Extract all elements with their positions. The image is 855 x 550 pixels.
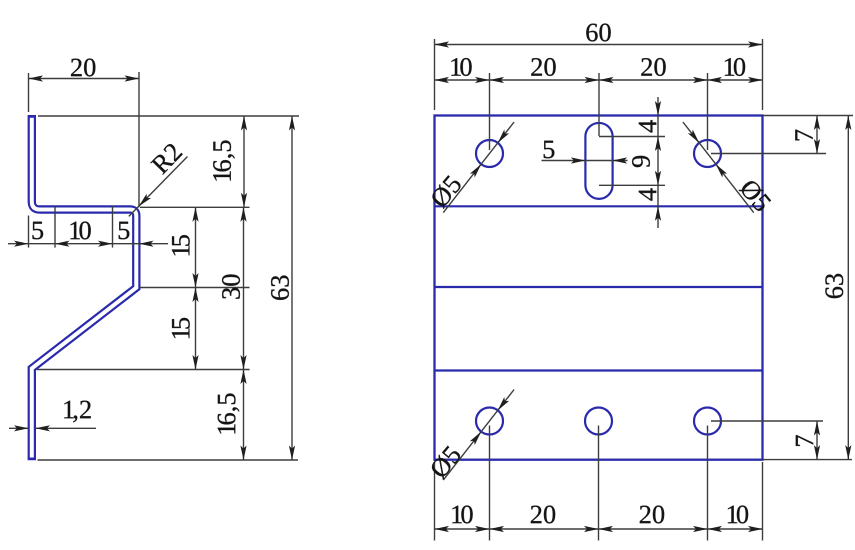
dimension 30 xyxy=(222,207,247,369)
dimension chain 5 / 10 / 5 xyxy=(8,222,168,247)
dimension column 4 / 9 / 4 (slot position) xyxy=(632,97,661,228)
dimension 16,5 (top) xyxy=(213,116,247,207)
extension tick at x=15 (dim 5/10/5) xyxy=(112,206,114,248)
leader Ø5 (top-left hole) xyxy=(429,122,514,213)
extension line: bottom edge horizontal xyxy=(38,459,299,461)
extension tick at x=5 (dim 5/10/5) xyxy=(54,206,56,248)
slot 5x9 (obround) xyxy=(585,123,612,199)
extension line: top edge to right xyxy=(763,115,854,117)
dimension 15 (upper) xyxy=(172,207,199,287)
extension line: slot top arc center xyxy=(599,136,665,138)
extension line: slot centerline xyxy=(598,73,600,136)
extension tick at left face (dim 5/10/5) xyxy=(28,216,30,248)
extension line: slot bottom arc center xyxy=(599,184,665,186)
extension line: top-left hole centerline xyxy=(489,73,491,150)
dimension 7 (bottom hole from edge) xyxy=(796,421,820,460)
extension line: bottom edge to right xyxy=(763,459,853,461)
dimension 7 (top hole from edge) xyxy=(795,116,820,154)
extension line: bottom-middle hole centerline xyxy=(598,426,600,541)
dimension 63 (right view overall height) xyxy=(825,116,851,460)
dimension 1,2 (sheet thickness) xyxy=(9,401,96,432)
extension line: left face vertical (for dim 20) xyxy=(28,73,30,112)
extension line: fold level 16,5 horizontal xyxy=(140,206,250,208)
extension line: top-left corner vertical xyxy=(434,39,436,110)
dimension 20 (top flange width) xyxy=(29,59,140,82)
left view: bent sheet profile (outline, thickness 1.2) xyxy=(32,115,137,460)
extension line: bottom-left corner vertical xyxy=(434,462,436,541)
extension line: bottom-right hole centerline xyxy=(707,426,709,541)
leader Ø5 (top-right hole) xyxy=(683,122,772,213)
dimension 63 (left view overall height) xyxy=(271,116,295,460)
hole top-right Ø5 xyxy=(694,140,721,167)
bend line (middle) xyxy=(435,286,763,288)
dimension chain 10 / 20 / 20 / 10 (top) xyxy=(435,58,763,83)
extension line: bottom-left hole centerline xyxy=(489,426,491,541)
extension line: right bend face vertical (for dim 20) xyxy=(138,72,140,207)
hole bottom-right Ø5 xyxy=(694,408,721,435)
dimension 60 (overall width) xyxy=(435,24,763,48)
extension line: mid bend level horizontal xyxy=(140,287,250,289)
dimension chain 10 / 20 / 20 / 10 (bottom) xyxy=(435,506,763,533)
extension line: bottom-right corner vertical xyxy=(762,462,764,541)
bend line (upper fold) xyxy=(435,205,763,207)
bend line (lower fold) xyxy=(435,369,763,371)
hole top-left Ø5 xyxy=(476,140,503,167)
hole bottom-left Ø5 xyxy=(476,408,503,435)
dimension 15 (lower) xyxy=(172,288,199,370)
leader Ø5 (bottom-left hole) xyxy=(429,390,514,481)
leader R2 (bend radius) xyxy=(129,142,188,216)
extension line: top-right hole centerline xyxy=(707,73,709,150)
extension line: bottom hole center to right xyxy=(711,420,823,422)
extension line: top edge horizontal (for dims 16,5 and 63) xyxy=(38,115,299,117)
dimension 16,5 (bottom) xyxy=(218,370,247,461)
dimension 5 (slot width) xyxy=(542,141,628,164)
extension line: top-right corner vertical xyxy=(762,39,764,110)
extension line: top hole center to right xyxy=(711,153,826,155)
hole bottom-middle Ø5 xyxy=(585,408,612,435)
extension line: lower bend level horizontal xyxy=(37,369,250,371)
right view: part outline rectangle xyxy=(435,116,763,460)
